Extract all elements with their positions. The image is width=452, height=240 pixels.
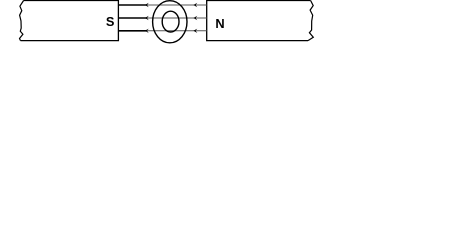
arrowhead on line 3 right — [193, 29, 197, 33]
field line 3 (bottom) thick segment — [118, 30, 146, 32]
coil outer ellipse — [153, 1, 187, 43]
coil inner ellipse — [162, 11, 179, 32]
arrowhead on line 1 left — [145, 3, 149, 7]
field line 2 (middle) thick segment — [118, 17, 146, 19]
svg-text:N: N — [215, 16, 224, 31]
arrowhead on line 2 left — [145, 16, 149, 20]
arrowhead on line 1 right — [193, 3, 197, 7]
arrowhead on line 2 right — [193, 16, 197, 20]
field line 1 (top) thick segment — [118, 4, 146, 6]
magnet bar left (S pole) — [20, 1, 119, 41]
field line 3 (bottom) thin segment — [145, 30, 207, 32]
svg-text:S: S — [106, 14, 115, 29]
field line 1 (top) thin segment — [145, 4, 207, 6]
magnet bar right (N pole) — [207, 1, 314, 41]
field line 2 (middle) thin segment — [145, 17, 207, 19]
arrowhead on line 3 left — [145, 29, 149, 33]
